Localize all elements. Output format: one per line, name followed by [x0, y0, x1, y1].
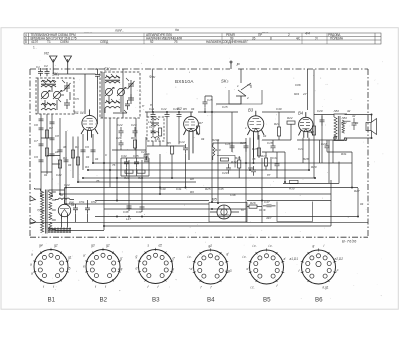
- wire: [30, 221, 368, 223]
- tube V5 magic eye: [209, 203, 247, 223]
- svg-text:С11: С11: [149, 107, 155, 111]
- svg-text:С23: С23: [131, 123, 137, 127]
- capacitor C34: [124, 158, 129, 168]
- chassis frame left: [29, 69, 31, 237]
- svg-text:R29: R29: [311, 165, 317, 169]
- inner box bottom: [104, 180, 331, 226]
- antenna A2: [64, 56, 72, 63]
- scan noise speckles: [30, 55, 383, 299]
- trimmer C5b: [64, 99, 70, 109]
- svg-text:R9: R9: [190, 190, 194, 194]
- inductor L1: [41, 81, 56, 83]
- capacitor C24: [325, 142, 330, 152]
- svg-text:g': g': [120, 257, 123, 261]
- wire speaker top: [314, 115, 372, 122]
- svg-text:С16: С16: [225, 142, 231, 146]
- terminal П: [230, 63, 232, 70]
- svg-text:С18: С18: [267, 141, 273, 145]
- wire: [96, 69, 143, 230]
- wire: [95, 200, 209, 202]
- svg-text:В5: В5: [263, 297, 271, 304]
- variable capacitor C3: [41, 91, 48, 98]
- tube V3: [247, 111, 264, 158]
- svg-text:В6: В6: [315, 297, 323, 304]
- svg-text:d': d': [173, 257, 176, 261]
- svg-text:Тр: Тр: [37, 208, 41, 212]
- resistor R1: [71, 150, 74, 158]
- variable capacitor C7: [117, 88, 124, 95]
- capacitor C22: [119, 127, 124, 137]
- resistor R26: [249, 205, 257, 208]
- svg-text:i.c.: i.c.: [251, 286, 255, 290]
- svg-text:С46: С46: [230, 193, 236, 197]
- resistor R10: [125, 170, 133, 173]
- svg-text:R19: R19: [215, 148, 221, 152]
- svg-text:С21: С21: [298, 147, 304, 151]
- svg-text:g: g: [313, 244, 315, 248]
- svg-text:В3: В3: [248, 108, 254, 113]
- svg-text:С27: С27: [141, 150, 147, 154]
- wire: [238, 68, 368, 70]
- wire: [143, 33, 145, 44]
- wire: [153, 119, 198, 194]
- coil hatching: [106, 74, 129, 113]
- svg-text:04 Ф: 04 Ф: [259, 208, 266, 212]
- wire: [221, 33, 223, 44]
- svg-text:С38: С38: [123, 210, 129, 214]
- svg-text:НАЛАЖЕН-СОЕДИНЕННЫЙ Г: НАЛАЖЕН-СОЕДИНЕННЫЙ Г: [206, 40, 248, 44]
- inductor L4: [41, 109, 56, 111]
- svg-text:R26: R26: [250, 201, 256, 205]
- tube V2: [184, 112, 199, 160]
- svg-text:В5: В5: [212, 197, 218, 202]
- capacitor C9: [125, 100, 130, 110]
- wire: [213, 143, 246, 145]
- chassis frame right: [367, 69, 369, 237]
- wire: [38, 78, 52, 114]
- svg-text:L47: L47: [126, 217, 131, 221]
- svg-text:L9: L9: [148, 120, 152, 124]
- svg-text:С22: С22: [117, 123, 123, 127]
- svg-text:R22: R22: [287, 116, 293, 120]
- svg-text:R1: R1: [75, 145, 79, 149]
- variable capacitor C6: [105, 88, 112, 95]
- wire: [83, 177, 315, 179]
- svg-text:В-7636: В-7636: [342, 239, 357, 244]
- svg-text:-582: -582: [341, 116, 347, 120]
- svg-text:g4: g4: [39, 244, 43, 248]
- wire: [297, 140, 352, 163]
- svg-text:R21: R21: [274, 122, 280, 126]
- svg-text:С52: С52: [91, 200, 97, 204]
- capacitor C39: [140, 200, 145, 212]
- wire: [301, 33, 303, 44]
- svg-text:__ _: __ _: [261, 28, 268, 32]
- svg-text:i.c.: i.c.: [253, 244, 257, 248]
- svg-text:R7: R7: [199, 121, 203, 125]
- inductor L6: [105, 82, 120, 84]
- capacitor C52: [85, 200, 90, 222]
- svg-text:С15: С15: [222, 105, 228, 109]
- resistor R5: [159, 128, 162, 136]
- wire: [67, 59, 69, 74]
- capacitor C14: [183, 144, 188, 154]
- svg-text:k,8: k,8: [118, 268, 122, 272]
- loudspeaker Gr1: [366, 115, 377, 139]
- resistor R8: [76, 157, 79, 165]
- svg-text:С1: С1: [36, 65, 40, 69]
- mains switch arm 1: [30, 196, 36, 201]
- capacitor C1: [38, 68, 43, 76]
- svg-text:32: 32: [352, 114, 356, 118]
- svg-text:В4: В4: [298, 111, 304, 116]
- svg-text:С12: С12: [161, 107, 167, 111]
- svg-text:R5: R5: [167, 141, 171, 145]
- switch SK3 box: [229, 90, 262, 104]
- chassis dash-dot frame top: [30, 68, 230, 70]
- wire: [326, 33, 328, 44]
- resistor R4: [58, 160, 61, 168]
- capacitor C47: [263, 205, 276, 207]
- wire: [78, 181, 196, 183]
- svg-text:04: 04: [71, 203, 75, 207]
- svg-text:ПОЛЕМА: ПОЛЕМА: [330, 37, 344, 41]
- resistor R30: [290, 180, 299, 183]
- svg-text:R27: R27: [354, 189, 360, 193]
- svg-text:g1: g1: [68, 256, 72, 260]
- wire: [105, 108, 127, 113]
- title block table: [24, 33, 381, 44]
- svg-text:a1,D1: a1,D1: [290, 257, 299, 261]
- svg-text:R31: R31: [341, 152, 347, 156]
- svg-text:L10: L10: [155, 137, 160, 141]
- resistor R17: [264, 158, 267, 166]
- capacitor C18: [271, 142, 276, 152]
- tube socket В4 (bottom view): [188, 244, 232, 290]
- capacitor C14a: [64, 160, 69, 162]
- svg-text:С49: С49: [276, 107, 282, 111]
- wire jumper: [41, 138, 60, 172]
- svg-text:R10: R10: [124, 176, 130, 180]
- svg-text:e2,D2: e2,D2: [335, 257, 344, 261]
- capacitor C35: [134, 158, 139, 168]
- capacitor C49 label wire: [290, 124, 292, 140]
- svg-text:26: 26: [252, 37, 256, 41]
- svg-text:С14: С14: [179, 140, 185, 144]
- svg-text:87: 87: [267, 173, 271, 177]
- tube V1: [81, 109, 98, 140]
- capacitor C29b: [50, 122, 55, 124]
- svg-text:d2: d2: [159, 244, 163, 248]
- junction dots: [103, 111, 219, 218]
- svg-text:R15: R15: [252, 147, 258, 151]
- inductor L2: [41, 86, 56, 88]
- svg-text:С9: С9: [34, 155, 38, 159]
- wire: [247, 158, 262, 223]
- svg-text:R14: R14: [231, 160, 237, 164]
- resistor R15: [257, 148, 260, 156]
- wire rectifier heater: [62, 187, 68, 227]
- wire: [205, 96, 212, 202]
- svg-text:04: 04: [360, 202, 364, 206]
- wire: [24, 36, 381, 38]
- wire: [102, 72, 131, 118]
- capacitor C27: [144, 150, 149, 160]
- wire: [55, 230, 104, 232]
- svg-text:k5: k5: [67, 267, 71, 271]
- svg-text:R24: R24: [308, 130, 314, 134]
- svg-text:a': a': [284, 257, 287, 261]
- svg-text:С51: С51: [79, 200, 85, 204]
- svg-text:В4: В4: [207, 297, 215, 304]
- svg-text:С2: С2: [44, 64, 48, 68]
- svg-text:d: d: [247, 267, 249, 271]
- capacitor C31: [39, 144, 44, 146]
- svg-text:С15: С15: [207, 98, 213, 102]
- capacitor C23: [133, 127, 138, 137]
- svg-text:1 .: 1 .: [33, 46, 37, 50]
- svg-text:С34: С34: [121, 154, 127, 158]
- capacitor C13: [177, 112, 182, 119]
- svg-text:С6: С6: [34, 123, 38, 127]
- svg-text:лúnŕ..: лúnŕ..: [114, 29, 124, 33]
- svg-text:41Э7: 41Э7: [31, 40, 38, 44]
- wire: [262, 112, 295, 140]
- svg-text:a: a: [31, 253, 33, 257]
- svg-text:04: 04: [191, 107, 195, 111]
- svg-text:R6: R6: [131, 136, 135, 140]
- svg-text:б7: б7: [241, 208, 245, 212]
- resistor R2: [45, 130, 48, 138]
- svg-text:Тр: Тр: [40, 208, 45, 213]
- capacitor C9a: [91, 150, 96, 152]
- capacitor C12a: [50, 154, 55, 156]
- oscillator padder cluster: [112, 127, 156, 160]
- svg-text:С24: С24: [321, 142, 327, 146]
- svg-text:-582: -582: [333, 109, 339, 113]
- capacitor C20: [320, 116, 325, 126]
- inductor L5: [105, 77, 120, 79]
- svg-text:С14: С14: [64, 183, 70, 187]
- svg-text:4/4: 4/4: [305, 31, 310, 35]
- variable capacitor C4: [53, 91, 60, 98]
- capacitor C15: [203, 98, 208, 108]
- AVC network cluster: [121, 156, 149, 176]
- core: [41, 83, 56, 86]
- capacitor C36: [144, 156, 149, 162]
- wire: [216, 83, 241, 104]
- wire grid bus above V2: [145, 111, 238, 113]
- wire: [104, 208, 246, 210]
- tube socket В3 (bottom view): [136, 244, 176, 290]
- svg-text:С29: С29: [222, 171, 228, 175]
- resistor R24: [312, 126, 315, 135]
- chassis frame bottom: [30, 236, 368, 238]
- svg-text:R2: R2: [49, 126, 53, 130]
- svg-text:2: 2: [246, 96, 249, 100]
- tube socket В1 (bottom view): [30, 244, 72, 290]
- svg-text:R11: R11: [138, 176, 144, 180]
- svg-text:04: 04: [86, 155, 90, 159]
- svg-text:76: 76: [96, 179, 100, 183]
- svg-text:С35: С35: [133, 154, 139, 158]
- inductor L8: [105, 107, 120, 109]
- capacitor C33: [50, 138, 55, 140]
- svg-text:R8: R8: [190, 177, 194, 181]
- svg-text:R20б: R20б: [212, 138, 220, 142]
- wire: [97, 80, 99, 90]
- wire: [262, 140, 291, 182]
- svg-text:604: 604: [294, 92, 299, 96]
- wire: [121, 158, 149, 176]
- wire: [66, 187, 358, 189]
- capacitor C10: [95, 71, 100, 80]
- svg-text:SK3: SK3: [221, 79, 229, 84]
- svg-text:R3: R3: [85, 165, 89, 169]
- svg-text:10: 10: [55, 150, 59, 154]
- capacitor C16: [230, 142, 235, 152]
- wire: [147, 112, 232, 203]
- svg-text:___ _: ___ _: [83, 29, 92, 33]
- tube socket В6 (bottom view): [290, 244, 344, 290]
- svg-text:g: g: [136, 255, 138, 259]
- inductor L7: [105, 102, 120, 104]
- capacitor C26: [119, 140, 124, 148]
- svg-text:В2: В2: [100, 297, 108, 304]
- wire: [28, 33, 30, 44]
- tuner block L1-L4: [36, 78, 74, 114]
- svg-text:СЛЕД: СЛЕД: [100, 40, 109, 44]
- choke Dr1: [55, 198, 74, 200]
- svg-text:g2: g2: [54, 244, 58, 248]
- wire: [338, 162, 340, 184]
- svg-text:d: d: [136, 267, 138, 271]
- svg-text:С41: С41: [176, 187, 182, 191]
- svg-text:R25: R25: [205, 187, 211, 191]
- wire: [95, 216, 358, 218]
- resistor R22: [287, 121, 295, 124]
- capacitor C17: [244, 142, 249, 152]
- wire: [24, 39, 381, 41]
- tube V4: [299, 112, 314, 138]
- capacitor C29a: [39, 119, 44, 121]
- resistor R16: [238, 160, 241, 168]
- capacitor C30: [39, 128, 44, 130]
- svg-text:Я2: Я2: [43, 51, 50, 56]
- wire: [239, 152, 277, 178]
- capacitor C13a: [58, 150, 63, 152]
- svg-text:Т1: Т1: [47, 40, 51, 44]
- svg-text:R4: R4: [63, 156, 67, 160]
- resistor R21: [277, 127, 280, 136]
- svg-text:С06: С06: [295, 83, 301, 87]
- svg-text:С45: С45: [218, 187, 224, 191]
- coil hatching: [42, 79, 65, 107]
- wire: [283, 182, 339, 184]
- capacitor C31a: [275, 160, 280, 170]
- svg-text:С9: С9: [85, 145, 89, 149]
- output transformer T2: [334, 114, 347, 141]
- wire: [247, 200, 331, 202]
- wire: [112, 137, 146, 150]
- svg-text:ňa: ňa: [175, 28, 179, 32]
- svg-text:a': a': [83, 254, 86, 258]
- svg-text:k,g3: k,g3: [226, 269, 232, 273]
- svg-text:С13: С13: [173, 107, 179, 111]
- oscillator block L5-L8: [100, 72, 140, 118]
- wire: [35, 188, 37, 200]
- tube socket В5 (bottom view): [243, 244, 287, 290]
- svg-text:36: 36: [63, 145, 67, 149]
- resistor R6a: [133, 140, 136, 148]
- svg-text:04: 04: [263, 134, 267, 138]
- svg-text:7б: 7б: [252, 157, 256, 161]
- svg-text:8: 8: [25, 40, 27, 44]
- svg-text:С17: С17: [240, 141, 246, 145]
- svg-text:С8: С8: [55, 134, 59, 138]
- wire speaker bottom: [344, 137, 372, 139]
- capacitor C11: [151, 112, 156, 119]
- resistor R11: [137, 170, 145, 173]
- resistor R18: [221, 158, 229, 161]
- svg-text:4/с: 4/с: [296, 37, 300, 41]
- capacitor C51: [73, 204, 78, 222]
- svg-text:76: 76: [112, 163, 116, 167]
- wire: [88, 169, 309, 171]
- power transformer T3: [35, 189, 65, 234]
- trimmer C8: [128, 80, 135, 90]
- svg-text:С47: С47: [264, 200, 270, 204]
- feedback loop box: [277, 202, 313, 222]
- svg-text:СХЕМ: СХЕМ: [60, 40, 69, 44]
- trimmer C8b: [128, 94, 134, 104]
- junction dots: [40, 162, 359, 227]
- wire: [45, 92, 70, 110]
- svg-text:i.c.: i.c.: [188, 255, 192, 259]
- resistor R3: [45, 148, 48, 156]
- svg-text:С40: С40: [160, 187, 166, 191]
- svg-text:Фси: Фси: [149, 75, 155, 79]
- wire: [303, 69, 329, 183]
- svg-text:a: a: [31, 272, 33, 276]
- svg-text:i.c.: i.c.: [243, 255, 247, 259]
- wire: [374, 33, 376, 44]
- svg-text:С7: С7: [34, 139, 38, 143]
- svg-text:04: 04: [44, 173, 48, 177]
- svg-text:С30: С30: [248, 166, 254, 170]
- svg-text:С20: С20: [317, 109, 323, 113]
- svg-text:g3: g3: [91, 244, 95, 248]
- tube socket В2 (bottom view): [83, 244, 123, 290]
- heater winding marks: [48, 229, 71, 233]
- svg-text:04: 04: [201, 137, 205, 141]
- resistor R19: [213, 145, 215, 160]
- junction dot: [371, 114, 373, 116]
- wire: [66, 203, 209, 205]
- svg-text:SK2: SK2: [104, 67, 112, 72]
- svg-text:R28: R28: [303, 157, 309, 161]
- svg-text:i.c.: i.c.: [269, 244, 273, 248]
- left component chain wires: [41, 90, 98, 204]
- svg-text:В1: В1: [48, 297, 56, 304]
- switch SK3: [236, 69, 251, 96]
- capacitor C30a: [251, 166, 256, 176]
- svg-text:R17: R17: [261, 154, 267, 158]
- svg-text:С31: С31: [272, 156, 278, 160]
- svg-text:В1 04: В1 04: [74, 110, 84, 115]
- svg-text:04: 04: [355, 121, 359, 125]
- capacitor C28: [151, 128, 156, 136]
